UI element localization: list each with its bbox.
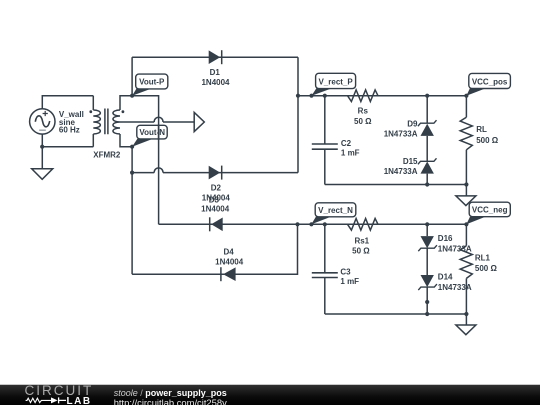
resistor RL	[460, 117, 472, 150]
node Vout-N anchor	[130, 145, 134, 149]
diode D3	[201, 196, 230, 232]
wire D3 run	[159, 223, 467, 225]
svg-text:D4: D4	[223, 248, 234, 257]
wire RL branch	[465, 96, 467, 185]
svg-text:D1: D1	[210, 68, 221, 77]
node zener pin lower	[425, 300, 429, 304]
svg-text:1N4004: 1N4004	[201, 204, 230, 213]
node V_rect_P anchor	[309, 94, 313, 98]
svg-text:C2: C2	[341, 139, 352, 148]
node D1-D2 junction	[296, 94, 300, 98]
ground under source	[32, 169, 53, 180]
wire xfmr left pins	[92, 96, 94, 147]
svg-text:Rs: Rs	[358, 107, 369, 116]
phase dot right	[122, 110, 125, 113]
node zener bottom upper	[425, 182, 429, 186]
wire C3 branch	[324, 224, 326, 314]
svg-text:1N4733A: 1N4733A	[384, 129, 418, 138]
node D3-D4 junction	[295, 222, 299, 226]
svg-text:D3: D3	[209, 196, 220, 205]
svg-text:1N4733A: 1N4733A	[384, 167, 418, 176]
wire D4 run	[132, 224, 297, 274]
wire lower bottom	[325, 313, 467, 315]
node src-gnd	[40, 145, 44, 149]
wire upper bottom	[325, 184, 467, 186]
zener D9	[384, 119, 437, 138]
transformer XFMR2	[93, 109, 120, 135]
footer bar	[0, 384, 540, 405]
svg-text:60 Hz: 60 Hz	[59, 126, 80, 135]
svg-text:500 Ω: 500 Ω	[476, 136, 499, 145]
svg-text:50 Ω: 50 Ω	[354, 117, 372, 126]
svg-text:1N4733A: 1N4733A	[438, 245, 472, 254]
capacitor C3	[312, 273, 338, 278]
node Vout-P anchor	[130, 94, 134, 98]
node V_rect_N anchor	[309, 222, 313, 226]
wire overlay through Vout-N flag	[158, 125, 160, 141]
wire zener upper branch	[426, 96, 428, 185]
wire C2 branch	[324, 96, 326, 185]
ground upper right	[456, 196, 476, 206]
footer url	[114, 397, 227, 405]
zener D16	[418, 234, 472, 254]
svg-text:Vout-N: Vout-N	[139, 128, 165, 137]
svg-text:XFMR2: XFMR2	[93, 151, 121, 160]
logo resistor+diode	[25, 396, 71, 405]
node VCC_pos anchor	[464, 94, 468, 98]
wire center tap with hop	[120, 117, 194, 122]
svg-text:VCC_pos: VCC_pos	[472, 77, 508, 86]
wire RL1 branch	[465, 224, 467, 314]
svg-text:RL1: RL1	[475, 254, 491, 263]
node lower gnd	[464, 312, 468, 316]
wire xfmr right bottom pin	[120, 134, 132, 147]
wire D2 run with hop	[132, 168, 298, 173]
resistor Rs	[348, 90, 379, 102]
wire xfmr right top pin to corner	[120, 96, 159, 225]
svg-text:500 Ω: 500 Ω	[475, 264, 498, 273]
node upper gnd	[464, 182, 468, 186]
svg-text:1N4004: 1N4004	[201, 78, 230, 87]
resistor RL1	[460, 246, 472, 279]
svg-text:1 mF: 1 mF	[341, 148, 360, 157]
phase dot left	[89, 110, 92, 113]
svg-text:Rs1: Rs1	[354, 236, 369, 245]
node flag Vout-N	[132, 125, 167, 146]
node C3 tee	[323, 222, 327, 226]
svg-text:RL: RL	[476, 125, 487, 134]
node flag VCC_pos	[466, 73, 510, 95]
wire vout-p up to D1	[131, 57, 133, 95]
svg-text:V_rect_N: V_rect_N	[318, 206, 353, 215]
zener D15	[384, 157, 437, 176]
svg-text:D9: D9	[407, 119, 418, 128]
svg-text:1 mF: 1 mF	[340, 277, 359, 286]
diode D1	[201, 50, 230, 87]
resistor Rs1	[348, 219, 379, 231]
diode D4	[215, 248, 244, 282]
wire upper ground stem	[465, 185, 467, 196]
wire V_rect_P run	[298, 95, 466, 97]
wire vout-n vertical	[131, 147, 133, 275]
node zener bottom lower	[425, 312, 429, 316]
svg-text:Vout-P: Vout-P	[139, 77, 165, 86]
wire source top	[42, 96, 93, 109]
ground lower right	[456, 325, 476, 335]
node flag V_rect_N	[311, 203, 355, 225]
node flag V_rect_P	[312, 73, 356, 95]
footer title	[114, 388, 227, 398]
node zener top	[425, 94, 429, 98]
node flag Vout-P	[132, 74, 168, 96]
svg-text:VCC_neg: VCC_neg	[472, 206, 508, 215]
node C2 tee	[323, 94, 327, 98]
svg-text:D15: D15	[403, 157, 418, 166]
node flag VCC_neg	[466, 202, 510, 224]
svg-text:50 Ω: 50 Ω	[352, 247, 370, 256]
svg-text:1N4004: 1N4004	[215, 257, 244, 266]
svg-text:D14: D14	[438, 272, 453, 281]
diode D2	[202, 166, 231, 203]
svg-text:V_rect_P: V_rect_P	[318, 77, 353, 86]
wire zener lower branch	[426, 224, 428, 314]
node VCC_neg anchor	[464, 222, 468, 226]
svg-text:D2: D2	[211, 183, 222, 192]
node zener lower top	[425, 222, 429, 226]
zener D14	[418, 272, 472, 292]
arrow terminal on center tap	[194, 112, 204, 131]
capacitor C2	[312, 144, 338, 149]
logo LAB	[67, 396, 92, 405]
wire source bottom	[42, 134, 93, 169]
node D2 tee	[130, 171, 134, 175]
voltage source V_wall	[30, 109, 55, 134]
wire top D1 run	[132, 57, 298, 172]
svg-text:C3: C3	[340, 267, 351, 276]
svg-text:1N4733A: 1N4733A	[438, 283, 472, 292]
logo CIRCUIT	[25, 383, 94, 398]
wire lower ground stem	[465, 314, 467, 325]
svg-text:D16: D16	[438, 234, 453, 243]
